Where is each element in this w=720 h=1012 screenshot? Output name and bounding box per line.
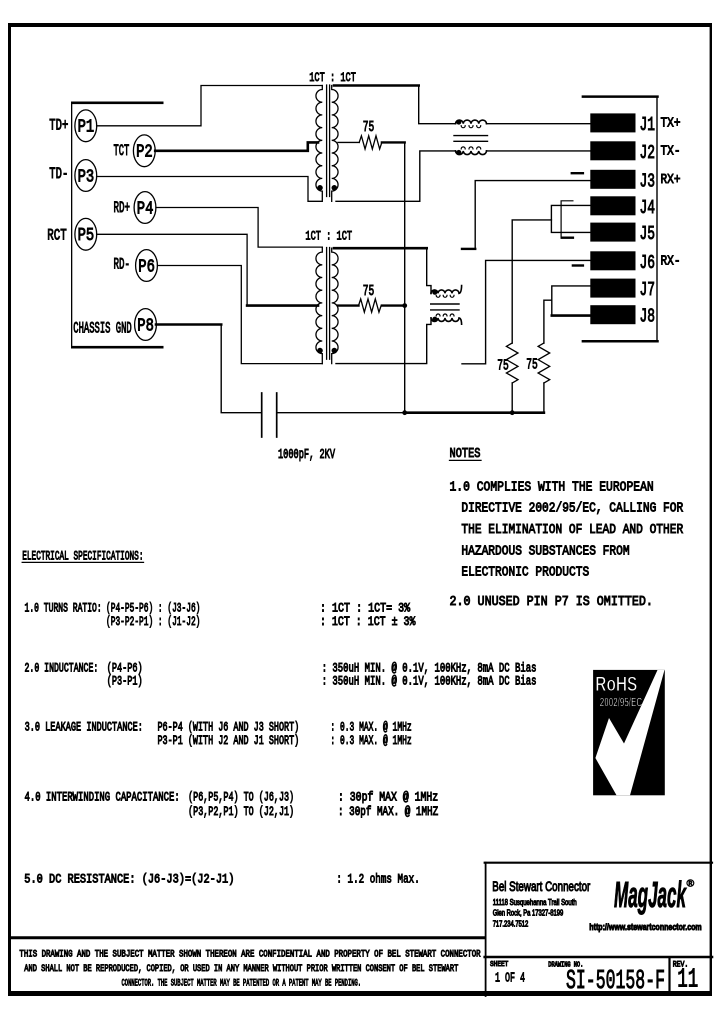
svg-text:THIS DRAWING AND THE SUBJECT M: THIS DRAWING AND THE SUBJECT MATTER SHOW… <box>19 949 480 960</box>
svg-text:: 1CT : 1CT= 3%: : 1CT : 1CT= 3% <box>320 601 411 615</box>
svg-text:RX+: RX+ <box>661 172 681 188</box>
junction node R3 <box>510 410 515 415</box>
wire R1 to node line <box>382 141 405 143</box>
svg-text:J3: J3 <box>640 170 656 192</box>
pin pad J2 <box>590 141 635 160</box>
disclaimer box <box>11 936 485 939</box>
svg-text:TD-: TD- <box>49 165 68 183</box>
wire R4 bottom to cap line <box>543 383 545 413</box>
connector pins J1-J8 <box>590 113 635 324</box>
svg-text:: 350uH MIN. @ 0.1V, 100KHz, 8: : 350uH MIN. @ 0.1V, 100KHz, 8mA DC Bias <box>322 662 537 676</box>
svg-text:1 OF 4: 1 OF 4 <box>495 971 525 986</box>
svg-text:2.0 INDUCTANCE:: 2.0 INDUCTANCE: <box>25 662 99 676</box>
wire tie J7-J8 <box>552 286 591 316</box>
connector outline <box>583 95 658 98</box>
svg-text:TD+: TD+ <box>49 117 68 135</box>
svg-text:1000pF, 2KV: 1000pF, 2KV <box>278 448 335 463</box>
choke CH2 top coil <box>431 286 462 294</box>
svg-text:J2: J2 <box>640 142 656 164</box>
choke CH2 bottom coil <box>431 318 462 324</box>
junction node capacitor line <box>402 410 407 415</box>
svg-text:: 0.3 MAX. @ 1MHz: : 0.3 MAX. @ 1MHz <box>330 721 411 735</box>
wire P6 to T2 primary bottom <box>158 266 323 364</box>
svg-text:(P6,P5,P4) TO (J6,J3): (P6,P5,P4) TO (J6,J3) <box>188 791 294 805</box>
capacitor C1 <box>261 393 263 437</box>
svg-text:(P4-P5-P6) : (J3-J6): (P4-P5-P6) : (J3-J6) <box>106 601 200 615</box>
bracket mark at J4/J5 <box>561 201 573 238</box>
T2 primary winding <box>316 247 322 364</box>
svg-text:J6: J6 <box>640 252 656 274</box>
title block frame <box>485 862 712 864</box>
svg-text:P8: P8 <box>137 316 154 336</box>
choke CH1 bottom coil <box>456 151 487 155</box>
svg-text:J4: J4 <box>640 197 656 219</box>
wire T1 secondary top to choke CH1 <box>334 84 419 87</box>
T1 core <box>327 85 330 197</box>
svg-text:SI-50158-F: SI-50158-F <box>566 967 665 997</box>
pin P4 <box>134 192 156 224</box>
RoHS logo <box>593 670 665 795</box>
MagJack logo <box>614 874 695 915</box>
pin P1 <box>75 110 97 142</box>
svg-text:1.0 COMPLIES WITH THE EUROPEAN: 1.0 COMPLIES WITH THE EUROPEAN <box>450 479 654 495</box>
svg-text:: 350uH MIN. @ 0.1V, 100KHz, 8: : 350uH MIN. @ 0.1V, 100KHz, 8mA DC Bias <box>322 675 537 689</box>
svg-text:RD+: RD+ <box>114 199 131 217</box>
wire P4 to T2 primary top <box>156 208 322 248</box>
wire P3 to T1 primary bottom <box>97 177 322 202</box>
CH2 bottom phase dot <box>432 317 437 322</box>
T2 core <box>327 248 330 360</box>
svg-text:DIRECTIVE 2002/95/EC, CALLING: DIRECTIVE 2002/95/EC, CALLING FOR <box>461 501 683 517</box>
svg-text:2002/95/EC: 2002/95/EC <box>600 695 642 709</box>
T1 phase dot primary <box>317 185 323 191</box>
svg-text:11: 11 <box>677 965 698 995</box>
T1 secondary winding <box>332 86 338 202</box>
pin pad J3 <box>590 170 635 189</box>
svg-text:CHASSIS GND: CHASSIS GND <box>73 319 131 337</box>
svg-text:4.0 INTERWINDING CAPACITANCE:: 4.0 INTERWINDING CAPACITANCE: <box>25 791 180 805</box>
T1 primary winding <box>316 86 322 202</box>
junction node R2 <box>402 303 407 308</box>
svg-text:: 30pf MAX. @ 1MHZ: : 30pf MAX. @ 1MHZ <box>338 805 439 819</box>
svg-text:P1: P1 <box>78 118 95 138</box>
svg-text:75: 75 <box>497 359 509 375</box>
svg-text:(P3-P1): (P3-P1) <box>107 675 143 689</box>
svg-text:: 1CT : 1CT ± 3%: : 1CT : 1CT ± 3% <box>320 615 416 629</box>
wire T2 secondary bottom to choke CH2 <box>336 318 431 364</box>
polarity dash at J6 <box>573 264 583 266</box>
svg-text:AND SHALL NOT BE REPRODUCED, C: AND SHALL NOT BE REPRODUCED, COPIED, OR … <box>24 963 458 974</box>
wire P8 to capacitor C1 <box>156 323 221 326</box>
svg-text:P6: P6 <box>138 257 155 277</box>
svg-text:75: 75 <box>363 120 375 136</box>
CH2 top phase dot <box>432 290 437 295</box>
svg-text:Bel Stewart Connector: Bel Stewart Connector <box>492 879 590 894</box>
svg-text:11118 Susquehanna Trail South: 11118 Susquehanna Trail South <box>493 898 577 907</box>
T2 phase dot secondary <box>332 348 338 354</box>
pin pad J5 <box>590 223 635 242</box>
svg-text:: 1.2 ohms Max.: : 1.2 ohms Max. <box>336 873 419 887</box>
svg-text:RCT: RCT <box>47 227 66 245</box>
svg-text:717.234.7512: 717.234.7512 <box>493 919 529 928</box>
transformer T1 <box>309 70 356 201</box>
resistor R3 75 <box>506 343 518 383</box>
svg-text:1CT : 1CT: 1CT : 1CT <box>305 229 352 244</box>
wire P1 to T1 primary top <box>97 86 323 126</box>
svg-text:RX-: RX- <box>661 253 681 269</box>
svg-text:THE ELIMINATION OF LEAD AND OT: THE ELIMINATION OF LEAD AND OTHER <box>461 522 683 538</box>
svg-text:P4: P4 <box>137 199 154 219</box>
wire CH1 bottom to pin J2 <box>487 150 591 152</box>
CH1 core <box>454 136 488 142</box>
wire tie J4-J5 <box>551 205 590 232</box>
T2 secondary winding <box>332 248 338 363</box>
CH1 top phase dot <box>456 119 461 124</box>
svg-text:TCT: TCT <box>114 142 130 160</box>
svg-text:3.0 LEAKAGE INDUCTANCE:: 3.0 LEAKAGE INDUCTANCE: <box>25 721 143 735</box>
wire CH1 top to pin J1 <box>487 123 591 125</box>
CH2 core <box>431 304 459 310</box>
svg-text:: 30pf MAX @ 1MHz: : 30pf MAX @ 1MHz <box>338 791 438 805</box>
polarity dash at J3 <box>572 172 583 174</box>
svg-text:P5: P5 <box>78 226 95 246</box>
wire P2 to T1 primary center tap <box>155 142 318 150</box>
resistor R4 75 <box>538 343 550 383</box>
svg-text:SHEET: SHEET <box>490 961 509 969</box>
svg-text:Glen Rock, Pa 17327-8199: Glen Rock, Pa 17327-8199 <box>493 909 564 918</box>
wire T2 secondary center tap to resistor R2 <box>338 304 359 306</box>
svg-text:ELECTRICAL SPECIFICATIONS:: ELECTRICAL SPECIFICATIONS: <box>22 549 143 563</box>
pin pad J6 <box>590 251 635 270</box>
svg-text:RoHS: RoHS <box>595 672 637 696</box>
notes text <box>450 479 684 610</box>
pin pad J4 <box>590 196 635 215</box>
wire R3 bottom to cap line <box>511 383 513 413</box>
svg-text:: 0.3 MAX. @ 1MHz: : 0.3 MAX. @ 1MHz <box>330 734 411 748</box>
svg-text:P3-P1 (WITH J2 AND J1 SHORT): P3-P1 (WITH J2 AND J1 SHORT) <box>158 734 300 748</box>
pin pad J8 <box>590 305 635 324</box>
svg-text:®: ® <box>687 878 695 890</box>
pin P6 <box>136 250 158 282</box>
wire J4/J5 tap to resistor R3 <box>512 220 551 343</box>
svg-text:5.0 DC RESISTANCE: (J6-J3)=(J2: 5.0 DC RESISTANCE: (J6-J3)=(J2-J1) <box>24 873 234 887</box>
choke CH1 top coil <box>456 120 487 124</box>
svg-text:TX-: TX- <box>661 143 681 159</box>
wire pin J6 down to choke CH2 <box>462 260 590 363</box>
pin pad J7 <box>590 279 635 298</box>
wire T2 secondary top to choke CH2 <box>334 247 427 250</box>
CH1 bottom phase dot <box>456 150 461 155</box>
svg-text:1.0 TURNS RATIO:: 1.0 TURNS RATIO: <box>25 601 102 615</box>
svg-text:HAZARDOUS SUBSTANCES FROM: HAZARDOUS SUBSTANCES FROM <box>461 543 629 559</box>
svg-text:TX+: TX+ <box>661 116 681 132</box>
wire R2 to node line <box>382 304 405 306</box>
pin P2 <box>133 135 155 167</box>
transformer T2 <box>305 229 352 364</box>
pin P8 <box>135 309 157 341</box>
wire pin J3 down to choke CH2 <box>475 181 590 249</box>
svg-text:75: 75 <box>363 284 375 300</box>
pin pad J1 <box>590 113 635 132</box>
T2 phase dot primary <box>317 348 323 354</box>
resistor R2 75 <box>359 299 382 312</box>
svg-text:P2: P2 <box>136 143 153 163</box>
svg-text:75: 75 <box>526 358 538 374</box>
svg-text:J5: J5 <box>640 223 656 245</box>
wire P5 to T2 primary center tap <box>97 234 248 305</box>
svg-text:CONNECTOR. THE SUBJECT MATTER: CONNECTOR. THE SUBJECT MATTER MAY BE PAT… <box>122 978 362 989</box>
svg-text:P6-P4 (WITH J6 AND J3 SHORT): P6-P4 (WITH J6 AND J3 SHORT) <box>158 721 300 735</box>
wire capacitor to node line <box>278 412 405 414</box>
svg-text:RD-: RD- <box>114 255 131 273</box>
pin P3 <box>75 160 97 192</box>
svg-text:http://www.stewartconnector.co: http://www.stewartconnector.com <box>589 922 701 933</box>
svg-text:(P3,P2,P1) TO (J2,J1): (P3,P2,P1) TO (J2,J1) <box>188 805 294 819</box>
electrical specifications items <box>24 601 536 886</box>
wire J7/J8 tap to resistor R4 <box>544 300 552 343</box>
svg-text:ELECTRONIC PRODUCTS: ELECTRONIC PRODUCTS <box>461 565 589 581</box>
svg-text:P3: P3 <box>78 167 95 187</box>
svg-text:MagJack: MagJack <box>614 874 687 915</box>
pin P5 <box>75 218 97 250</box>
svg-text:2.0 UNUSED PIN P7 IS OMITTED.: 2.0 UNUSED PIN P7 IS OMITTED. <box>450 594 653 610</box>
svg-text:(P3-P2-P1) : (J1-J2): (P3-P2-P1) : (J1-J2) <box>106 615 200 629</box>
svg-text:1CT : 1CT: 1CT : 1CT <box>309 70 356 85</box>
svg-text:J1: J1 <box>640 114 656 136</box>
wire node line to R3 R4 bottoms <box>405 411 544 414</box>
svg-text:(P4-P6): (P4-P6) <box>107 662 143 676</box>
svg-text:J7: J7 <box>640 279 656 301</box>
wire T1 secondary center tap to resistor R1 <box>338 141 359 143</box>
pin header box <box>71 102 164 349</box>
svg-text:J8: J8 <box>640 306 656 328</box>
wire T1 secondary bottom to choke CH1 <box>336 151 456 201</box>
resistor R1 75 <box>359 136 382 149</box>
node line (R1/R2 common to capacitor) <box>404 142 406 412</box>
T1 phase dot secondary <box>332 185 338 191</box>
